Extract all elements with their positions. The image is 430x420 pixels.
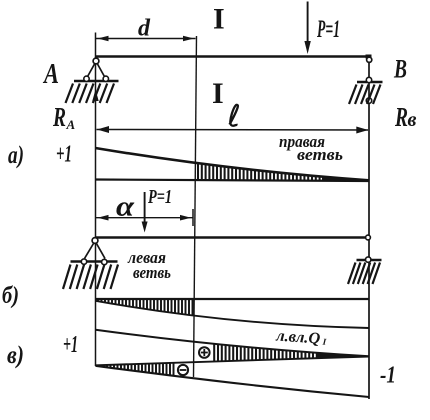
svg-text:R: R — [52, 102, 66, 132]
svg-text:а): а) — [8, 142, 24, 169]
svg-text:P=1: P=1 — [147, 186, 172, 208]
svg-text:б): б) — [2, 283, 19, 309]
svg-text:A: A — [42, 58, 59, 90]
svg-text:R: R — [394, 102, 408, 132]
svg-text:+1: +1 — [63, 332, 78, 358]
svg-text:в: в — [408, 109, 417, 131]
svg-text:-1: -1 — [380, 363, 396, 389]
svg-text:I: I — [212, 77, 224, 110]
svg-text:P=1: P=1 — [316, 16, 340, 43]
svg-text:+1: +1 — [56, 142, 72, 168]
svg-text:α: α — [116, 192, 135, 223]
svg-text:I: I — [213, 3, 225, 36]
svg-text:ветвь: ветвь — [297, 145, 343, 164]
svg-text:A: A — [66, 117, 76, 132]
svg-text:B: B — [393, 55, 407, 84]
svg-text:ветвь: ветвь — [133, 263, 171, 282]
svg-text:л.вл.Q: л.вл.Q — [275, 327, 322, 347]
svg-text:в): в) — [7, 342, 24, 369]
svg-text:d: d — [138, 16, 151, 42]
